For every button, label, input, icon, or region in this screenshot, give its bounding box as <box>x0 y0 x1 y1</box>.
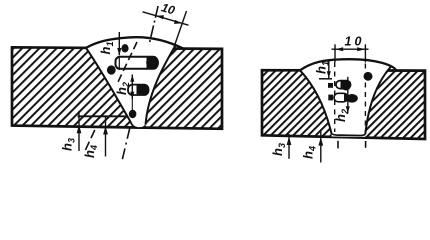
indentation dot B <box>107 65 116 74</box>
indentation capsule row 2 <box>128 85 149 95</box>
row3 capsule black end <box>344 94 358 103</box>
h2 arrowhead up <box>130 75 134 82</box>
h3 dimension line <box>78 111 80 151</box>
indentation capsule row 1 <box>116 57 158 69</box>
dimension line <box>332 48 369 50</box>
measurement line 1 (dash-dot, lower part) <box>122 128 130 162</box>
weld root line <box>131 123 146 128</box>
dashed measurement line left (below plate) <box>337 141 339 149</box>
h1 extension through capsule 1 <box>118 56 120 70</box>
row1 level tick <box>319 78 332 80</box>
label h1 <box>98 42 115 55</box>
h3 arrowhead <box>77 125 82 134</box>
h4 arrowhead (right figure) <box>318 137 323 145</box>
svg-text:10: 10 <box>160 0 177 17</box>
base metal plate (right figure) <box>262 70 425 139</box>
arrowhead right <box>357 47 365 51</box>
weld root line (right figure) <box>332 134 366 136</box>
dimension arrowhead right <box>174 20 182 24</box>
row3 small blob <box>328 95 333 101</box>
row2 capsule black end <box>341 81 351 91</box>
10 dimension extension line (right of dash-dot line) <box>174 11 187 47</box>
h1 arrowhead (down, right figure) <box>327 71 331 78</box>
dashed measurement line right (below plate) <box>365 141 367 148</box>
h2 dimension line (right figure) <box>347 77 349 114</box>
label h4 (right figure) <box>301 146 318 159</box>
extension tick right <box>364 44 366 62</box>
weld cap outline (right figure) <box>300 59 396 70</box>
h1 dimension line (right figure) <box>328 60 330 79</box>
h1 arrowhead (down) <box>117 48 121 56</box>
h3 dimension line (right figure) <box>288 134 290 159</box>
arrowhead left <box>335 47 343 51</box>
label h2 <box>114 82 131 95</box>
measurement line 1 (dash-dot, upper part) <box>149 6 158 45</box>
label h3 (right figure) <box>270 143 287 156</box>
dashed measurement line left (in weld) <box>334 62 336 132</box>
capsule row 2 black end <box>137 85 149 95</box>
row2 small blob <box>328 83 333 88</box>
svg-text:h4: h4 <box>301 146 318 159</box>
left fusion line <box>86 48 131 123</box>
indentation dot A <box>121 44 128 52</box>
row1 indentation dot (right line) <box>364 72 373 81</box>
h2 arrowhead down <box>130 92 134 99</box>
label 10 (left figure) <box>160 0 177 17</box>
weld cap outline <box>86 37 184 49</box>
label h4 <box>82 145 99 158</box>
h4 dimension line <box>105 117 107 157</box>
10 dimension (right figure): extension tick left <box>334 44 336 62</box>
h3 arrowhead (right figure) <box>287 137 292 145</box>
measurement line 2 (dashed, lower part) <box>84 130 95 153</box>
weld pocket (white fill over groove) <box>300 59 391 137</box>
h4 dimension line (right figure) <box>320 130 322 163</box>
right fusion line <box>146 46 176 125</box>
root indentation dot <box>129 110 137 118</box>
h2 arrowhead down (right figure) <box>346 106 350 113</box>
svg-text:10: 10 <box>345 34 365 48</box>
svg-text:h3: h3 <box>60 138 77 151</box>
h2 leader to root dot <box>131 99 133 110</box>
root level extension line <box>78 115 128 117</box>
svg-text:h4: h4 <box>82 145 99 158</box>
label h3 <box>60 138 77 151</box>
dimension arrowhead left <box>156 15 164 19</box>
capsule row 1 black end <box>146 57 159 69</box>
weld pocket (white fill over groove) <box>86 37 176 128</box>
h4 arrowhead <box>103 126 108 135</box>
row3 capsule (right figure) <box>334 93 348 102</box>
base metal plate (left figure) <box>12 47 222 129</box>
dashed measurement line right (in weld) <box>364 64 366 134</box>
right fusion line (right figure) <box>365 66 391 134</box>
h1 dimension line <box>118 32 120 55</box>
h2 dimension line <box>131 75 133 100</box>
svg-text:h3: h3 <box>270 143 287 156</box>
label h1 (right figure) <box>314 61 331 74</box>
10 dimension line <box>143 12 189 25</box>
row2 capsule (right figure) <box>336 81 351 89</box>
left fusion line (right figure) <box>300 70 332 133</box>
measurement line 2 (dashed, upper part) <box>118 42 137 82</box>
label h2 (right figure) <box>333 109 350 122</box>
